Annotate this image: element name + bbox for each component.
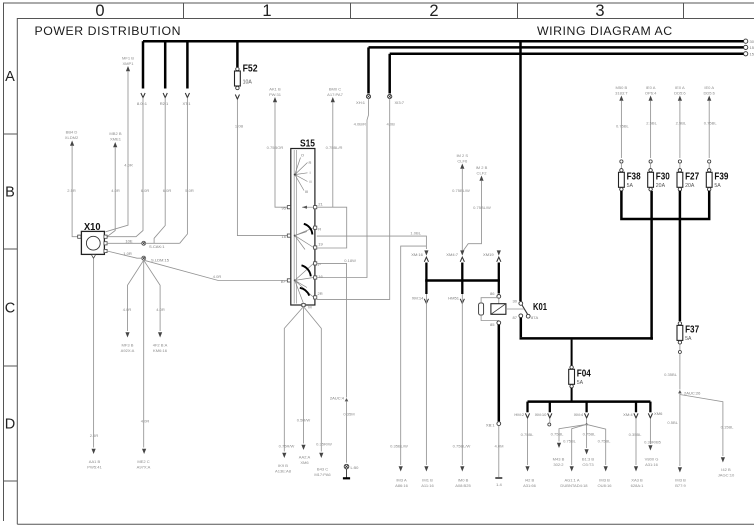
fuse F04 bbox=[570, 366, 573, 369]
node 15I terminal bbox=[744, 52, 748, 56]
svg-text:XM4:7: XM4:7 bbox=[446, 252, 458, 257]
svg-text:A92X:A: A92X:A bbox=[121, 348, 135, 353]
wire XM4 stub bbox=[461, 263, 463, 295]
svg-text:F38: F38 bbox=[627, 171, 641, 182]
svg-text:2AUC:26: 2AUC:26 bbox=[684, 391, 701, 396]
svg-text:XM:10: XM:10 bbox=[535, 412, 547, 417]
svg-text:1: 1 bbox=[262, 2, 271, 20]
svg-text:B+: B+ bbox=[281, 279, 287, 284]
svg-text:3: 3 bbox=[595, 2, 604, 20]
svg-text:XM19: XM19 bbox=[483, 252, 494, 257]
svg-text:0.75R/W: 0.75R/W bbox=[279, 443, 295, 448]
wire 0.5BL to IM3 B bbox=[679, 394, 681, 467]
splice S.LDM:15 bbox=[142, 256, 146, 260]
wire 0.35M to ground bbox=[346, 402, 348, 463]
svg-text:A13E:A8: A13E:A8 bbox=[275, 469, 292, 474]
svg-text:628A:1: 628A:1 bbox=[631, 483, 645, 488]
svg-text:6.0R: 6.0R bbox=[141, 188, 150, 193]
svg-text:F52: F52 bbox=[243, 64, 258, 75]
K01 switch blade bbox=[522, 305, 528, 314]
svg-text:IM3 A: IM3 A bbox=[396, 478, 407, 483]
svg-text:4.0R: 4.0R bbox=[156, 307, 165, 312]
wire 0.35BL to XA3 B bbox=[635, 419, 637, 465]
K01 terminal 86 bbox=[497, 295, 501, 299]
svg-text:0.75BL: 0.75BL bbox=[563, 439, 577, 444]
bus 30 bbox=[143, 40, 744, 43]
bus 15I bbox=[390, 53, 744, 56]
fuse F39 bbox=[708, 169, 711, 172]
svg-text:0.35M: 0.35M bbox=[343, 412, 355, 417]
wire F04 to bus2 bbox=[571, 388, 573, 401]
svg-text:10E: 10E bbox=[125, 238, 133, 243]
wire 1.0BL S15 pin R to XM:16 bbox=[317, 236, 427, 249]
svg-text:BM0 C: BM0 C bbox=[329, 87, 341, 92]
X10 pin bottom bbox=[92, 255, 96, 258]
wire drop to XI3:7 bbox=[388, 54, 391, 94]
svg-text:A17:PA7: A17:PA7 bbox=[327, 92, 343, 97]
K01 coil resistor bbox=[479, 303, 484, 315]
wire S15 pin21 to pin19 link bbox=[317, 207, 347, 248]
svg-text:DUBNTAD4:18: DUBNTAD4:18 bbox=[560, 483, 588, 488]
bus XM horizontal bbox=[425, 279, 500, 282]
svg-text:0.35R/W: 0.35R/W bbox=[316, 442, 332, 447]
wire drop XT:1 bbox=[186, 41, 189, 88]
wire K01 85 to XB:1 bbox=[498, 325, 501, 422]
wire 4.0R to X10 pin1 bbox=[107, 147, 115, 237]
wire XM:4 junction bbox=[586, 419, 588, 424]
wire 2.5R to X10 left pin bbox=[72, 146, 78, 237]
column ticks bbox=[184, 3, 684, 19]
wire 0.75BL to M43 B bbox=[559, 424, 587, 441]
fuse F27 bbox=[678, 169, 681, 172]
wire XM:10 tail bbox=[549, 419, 551, 423]
svg-text:2.5R: 2.5R bbox=[90, 433, 99, 438]
svg-text:M50 B: M50 B bbox=[616, 85, 628, 90]
S15 contact row1 bbox=[302, 206, 314, 208]
svg-text:F30: F30 bbox=[656, 171, 670, 182]
svg-text:B1:3 B: B1:3 B bbox=[582, 457, 594, 462]
K01 terminal 30 bbox=[519, 302, 523, 306]
svg-text:IM1 B: IM1 B bbox=[422, 478, 433, 483]
svg-text:10A: 10A bbox=[243, 80, 253, 86]
svg-text:WIRING DIAGRAM AC: WIRING DIAGRAM AC bbox=[537, 24, 673, 38]
svg-text:I: I bbox=[309, 170, 310, 175]
svg-text:AA2:A: AA2:A bbox=[299, 455, 311, 460]
svg-text:85: 85 bbox=[490, 322, 495, 327]
svg-text:A31:16: A31:16 bbox=[645, 462, 659, 467]
wire K01 30 feed bbox=[519, 41, 522, 301]
svg-text:PW:31: PW:31 bbox=[269, 92, 282, 97]
X10 pin left bbox=[78, 235, 81, 238]
svg-text:2AUC:4: 2AUC:4 bbox=[330, 395, 345, 400]
svg-text:B77:9: B77:9 bbox=[675, 483, 686, 488]
svg-text:4.0R: 4.0R bbox=[141, 419, 150, 424]
splice 2AUC:26 bbox=[678, 390, 682, 393]
svg-text:2.5R: 2.5R bbox=[67, 188, 76, 193]
svg-text:95: 95 bbox=[281, 205, 286, 210]
wire 4.0R splice to ME2 C bbox=[143, 260, 145, 447]
svg-text:0.75BL: 0.75BL bbox=[616, 124, 630, 129]
wire 2.5R X10 bottom to AA1 B bbox=[93, 258, 95, 447]
svg-text:IM3 B: IM3 B bbox=[675, 478, 686, 483]
X10 pin right 2 bbox=[104, 242, 107, 245]
svg-text:IK9 B: IK9 B bbox=[278, 463, 288, 468]
K01 coil bbox=[498, 298, 500, 303]
svg-text:I42 B: I42 B bbox=[525, 478, 535, 483]
svg-text:20A: 20A bbox=[685, 183, 695, 189]
wire stub XM:10 bbox=[549, 402, 551, 413]
svg-text:XM:16: XM:16 bbox=[411, 252, 423, 257]
connector XM6 bbox=[648, 413, 652, 418]
wire 2.5BL to F27 bbox=[679, 101, 681, 158]
svg-text:16: 16 bbox=[281, 234, 286, 239]
node 30 terminal bbox=[744, 39, 748, 43]
S15 pin P bbox=[314, 262, 317, 265]
svg-text:R: R bbox=[318, 227, 321, 232]
svg-text:DD5:6: DD5:6 bbox=[703, 90, 715, 95]
svg-text:O: O bbox=[301, 153, 304, 158]
svg-text:F04: F04 bbox=[577, 368, 591, 379]
svg-text:R2:1: R2:1 bbox=[160, 101, 169, 106]
svg-text:P: P bbox=[318, 262, 321, 267]
wire 4.0R splice to MF3 B bbox=[128, 260, 144, 331]
ground L:50 bbox=[344, 464, 349, 477]
svg-text:XM:4: XM:4 bbox=[574, 412, 584, 417]
svg-text:IE0 A: IE0 A bbox=[675, 85, 685, 90]
svg-text:0.75BL: 0.75BL bbox=[704, 121, 718, 126]
svg-text:19: 19 bbox=[318, 242, 323, 247]
svg-text:0.75BL: 0.75BL bbox=[598, 439, 612, 444]
svg-text:V800 G: V800 G bbox=[645, 457, 659, 462]
svg-text:XT:1: XT:1 bbox=[182, 101, 191, 106]
svg-text:21: 21 bbox=[318, 202, 323, 207]
svg-text:IE0 A: IE0 A bbox=[646, 85, 656, 90]
svg-text:XM6: XM6 bbox=[300, 460, 309, 465]
svg-text:F37: F37 bbox=[685, 324, 699, 335]
svg-text:0.75BL/R: 0.75BL/R bbox=[326, 145, 343, 150]
svg-text:0.5BL: 0.5BL bbox=[667, 420, 678, 425]
wire 4.0R from XMP1 bbox=[106, 71, 129, 232]
wire 4.0R splice to 4F2 bbox=[144, 260, 160, 331]
svg-text:XH:1: XH:1 bbox=[356, 100, 366, 105]
svg-text:15: 15 bbox=[750, 45, 754, 50]
wire S15 bottom to B43 bbox=[304, 307, 322, 452]
svg-text:A: A bbox=[5, 69, 15, 85]
svg-text:30: 30 bbox=[512, 299, 517, 304]
S15 middle wiper bbox=[294, 235, 296, 237]
svg-text:0.75BOR: 0.75BOR bbox=[267, 145, 284, 150]
svg-text:XM6: XM6 bbox=[654, 411, 663, 416]
svg-text:OP6:4: OP6:4 bbox=[645, 90, 657, 95]
svg-text:IM0 B: IM0 B bbox=[458, 478, 469, 483]
fuse F30 bbox=[649, 169, 652, 172]
wire 0.75BL/R from S15 pin 21 bbox=[332, 102, 334, 207]
svg-text:ME2 C: ME2 C bbox=[137, 459, 149, 464]
wire 0.75BL to F39 bbox=[708, 101, 710, 158]
svg-text:XB:1: XB:1 bbox=[486, 423, 496, 428]
svg-text:2R: 2R bbox=[318, 291, 323, 296]
wire 0.15BL branch to I42 B bbox=[680, 395, 723, 457]
svg-text:5A: 5A bbox=[714, 183, 721, 189]
svg-text:15I: 15I bbox=[750, 52, 754, 57]
wire 0.75BL to AG1 bbox=[572, 424, 587, 465]
svg-text:30: 30 bbox=[750, 39, 754, 44]
row ticks bbox=[4, 134, 18, 481]
wire stub XM:4 bbox=[585, 402, 587, 413]
wire 0.35BL/W to IM1 B bbox=[425, 294, 427, 465]
svg-text:AA1 B: AA1 B bbox=[89, 459, 101, 464]
S15 pin 16 left bbox=[287, 234, 290, 237]
wire F38 F39 link bus bbox=[621, 191, 709, 219]
fuse F37 bbox=[678, 322, 681, 325]
svg-text:4F2 B:A: 4F2 B:A bbox=[153, 343, 168, 348]
svg-text:B: B bbox=[5, 185, 15, 201]
svg-text:2.5BL: 2.5BL bbox=[646, 121, 657, 126]
svg-text:MB2 B: MB2 B bbox=[109, 131, 121, 136]
svg-text:XI3:7: XI3:7 bbox=[395, 100, 405, 105]
svg-text:IM3 B: IM3 B bbox=[599, 478, 610, 483]
svg-text:K01: K01 bbox=[533, 302, 547, 313]
svg-text:0.75BL/W: 0.75BL/W bbox=[473, 205, 491, 210]
S15 pin B+ bbox=[287, 279, 290, 282]
wire 0.18W S15 pin P to ground bbox=[317, 263, 347, 397]
wire stub HM:2 bbox=[526, 402, 528, 413]
wire S15 bottom to IK9 bbox=[284, 307, 303, 452]
svg-text:1.0BL: 1.0BL bbox=[410, 231, 421, 236]
wire 2.5BL to F30 bbox=[650, 101, 652, 158]
svg-text:3183:T: 3183:T bbox=[615, 90, 628, 95]
wire 10E X10 pin2 to drop bbox=[107, 242, 180, 244]
svg-text:0.18W: 0.18W bbox=[344, 258, 356, 263]
connector HM:2 bbox=[525, 413, 529, 418]
bus F04 distribution bbox=[528, 400, 651, 403]
svg-text:5A: 5A bbox=[685, 336, 692, 342]
svg-text:AK1 B: AK1 B bbox=[269, 87, 281, 92]
K01 terminal 87 bbox=[519, 314, 523, 318]
S15 pin 21 bbox=[314, 206, 317, 209]
svg-text:F39: F39 bbox=[714, 171, 728, 182]
svg-text:A86:16: A86:16 bbox=[395, 483, 409, 488]
svg-text:DD5:6: DD5:6 bbox=[674, 90, 686, 95]
svg-text:III: III bbox=[305, 189, 308, 194]
S15 pin 2R bbox=[314, 296, 317, 299]
svg-text:HM:2: HM:2 bbox=[514, 412, 524, 417]
svg-text:I42 B: I42 B bbox=[721, 467, 731, 472]
svg-text:XA3 B: XA3 B bbox=[631, 478, 643, 483]
svg-text:AG1:1 A: AG1:1 A bbox=[564, 478, 579, 483]
svg-text:0.35BL: 0.35BL bbox=[664, 372, 678, 377]
wire XM19 stub to K01 coil bbox=[498, 263, 500, 294]
svg-text:C: C bbox=[5, 301, 15, 317]
X10 pin right 1 bbox=[104, 235, 107, 238]
svg-text:2.5BL: 2.5BL bbox=[676, 121, 687, 126]
svg-text:F27: F27 bbox=[685, 171, 699, 182]
svg-text:CLF6: CLF6 bbox=[457, 159, 468, 164]
svg-text:IM 2 B: IM 2 B bbox=[476, 165, 488, 170]
wire drop to F52 bbox=[236, 41, 239, 67]
wire 4.0M to ground 1.4 bbox=[498, 426, 500, 478]
svg-text:1.0R: 1.0R bbox=[123, 251, 132, 256]
svg-text:A08:B25: A08:B25 bbox=[455, 483, 471, 488]
svg-text:87A: 87A bbox=[531, 315, 539, 320]
svg-text:S15: S15 bbox=[300, 139, 315, 150]
X10 pin right 3 bbox=[104, 249, 107, 252]
wire drop to XH:1 bbox=[367, 47, 370, 93]
fuse F38 bbox=[620, 169, 623, 172]
svg-text:OU8:16: OU8:16 bbox=[598, 483, 613, 488]
S15 pin 19 bbox=[314, 246, 317, 249]
node 15 terminal bbox=[744, 45, 748, 49]
svg-text:5A: 5A bbox=[627, 183, 634, 189]
wire 0.35R/B5 to V800 bbox=[649, 419, 651, 444]
svg-text:4.0R: 4.0R bbox=[123, 307, 132, 312]
svg-text:0.35BL: 0.35BL bbox=[629, 432, 643, 437]
svg-text:0.35R/B5: 0.35R/B5 bbox=[644, 439, 662, 444]
wire drop 8.0t:1 bbox=[142, 41, 145, 88]
svg-text:B43 C: B43 C bbox=[317, 467, 328, 472]
svg-text:87: 87 bbox=[512, 315, 517, 320]
svg-text:4.0B: 4.0B bbox=[387, 122, 396, 127]
wire 0.75BOR to S15 pin 95 bbox=[275, 102, 287, 207]
svg-text:0.15BL: 0.15BL bbox=[721, 425, 735, 430]
svg-text:JAGC:10: JAGC:10 bbox=[718, 473, 735, 478]
svg-text:IE0 A: IE0 A bbox=[704, 85, 714, 90]
svg-text:O3:T3: O3:T3 bbox=[582, 462, 594, 467]
svg-text:MF1 B: MF1 B bbox=[122, 56, 134, 61]
svg-text:86: 86 bbox=[490, 291, 495, 296]
wire F30 to bus bbox=[650, 191, 653, 340]
svg-text:XLDM2: XLDM2 bbox=[65, 135, 79, 140]
node XH:1 bbox=[366, 94, 370, 98]
svg-text:302:2: 302:2 bbox=[553, 462, 564, 467]
wire 0.75BL/W to XM4:7 jog bbox=[462, 181, 481, 252]
svg-text:0.35BL/W: 0.35BL/W bbox=[390, 443, 408, 448]
K01 resistor loop wires bbox=[481, 298, 499, 321]
svg-text:R: R bbox=[309, 160, 312, 165]
wire 1.0R X10 pin3 to splice bbox=[107, 251, 141, 258]
svg-text:0: 0 bbox=[95, 2, 104, 20]
connector XM:4 bbox=[634, 413, 638, 418]
wire 4.0B XI3 to S15 pin 2R bbox=[317, 99, 390, 300]
svg-text:4.0R: 4.0R bbox=[111, 188, 120, 193]
svg-text:2: 2 bbox=[429, 2, 438, 20]
wire stub XM:4 bbox=[635, 402, 637, 413]
svg-text:5A: 5A bbox=[577, 380, 584, 386]
wire stub XM6 bbox=[649, 402, 651, 413]
svg-text:MF3 B: MF3 B bbox=[122, 343, 134, 348]
S15 pin M bottom bbox=[302, 303, 305, 306]
svg-text:D: D bbox=[5, 417, 15, 433]
wire 4.0R splice to S15 B+ bbox=[144, 260, 288, 280]
wire 0.75BL to I42 B bbox=[527, 419, 529, 465]
wire branch to IM3 A bbox=[401, 246, 427, 465]
svg-text:S.CAK:1: S.CAK:1 bbox=[149, 244, 165, 249]
svg-text:XMP1: XMP1 bbox=[122, 61, 134, 66]
svg-text:0.75BL: 0.75BL bbox=[583, 432, 597, 437]
wire 0.75BL/W to XM4:7 bbox=[461, 169, 463, 252]
svg-text:M17:PA6: M17:PA6 bbox=[314, 472, 331, 477]
svg-text:1.4: 1.4 bbox=[496, 482, 502, 487]
wire 0.35BL below F37 bbox=[679, 344, 681, 350]
K01 terminal 85 bbox=[497, 321, 501, 325]
wire drop R2:1 bbox=[164, 41, 167, 88]
splice S.CAK:1 bbox=[142, 241, 146, 245]
svg-text:6.0R: 6.0R bbox=[163, 188, 172, 193]
svg-text:HM51: HM51 bbox=[448, 296, 460, 301]
splice 2AUC:4 bbox=[345, 398, 349, 401]
K01 terminal 87A bbox=[526, 314, 530, 318]
svg-text:0.75BL/W: 0.75BL/W bbox=[452, 188, 470, 193]
wire 6.0R to X10 pin1 bbox=[107, 98, 143, 237]
svg-text:4.0B/R: 4.0B/R bbox=[354, 122, 366, 127]
wire 0.75BL/W to IM0 B bbox=[461, 294, 463, 465]
wire 6.0R to splice S.CAK:1 bbox=[154, 98, 165, 244]
wire bus to F04 bbox=[571, 340, 573, 366]
wire K01 87 to F30 bus bbox=[520, 318, 523, 338]
node XI3:7 bbox=[388, 94, 392, 98]
svg-text:PW5:41: PW5:41 bbox=[87, 465, 102, 470]
wire 1.0B F52 to S15 pin 16 bbox=[237, 100, 287, 236]
svg-text:4.0M: 4.0M bbox=[495, 444, 505, 449]
svg-text:POWER DISTRIBUTION: POWER DISTRIBUTION bbox=[35, 24, 182, 38]
S15 lower wiper bbox=[294, 279, 296, 281]
svg-text:XME1: XME1 bbox=[110, 137, 122, 142]
svg-text:4.0R: 4.0R bbox=[124, 163, 133, 168]
S15 pin 16 right bbox=[314, 276, 317, 279]
wire S15 bottom to AA2 bbox=[303, 307, 305, 444]
svg-text:L:50: L:50 bbox=[351, 465, 360, 470]
svg-text:0.75BL: 0.75BL bbox=[551, 432, 565, 437]
connector XM:10 bbox=[548, 413, 552, 418]
svg-text:A97X:A: A97X:A bbox=[137, 465, 151, 470]
svg-text:KM6:16: KM6:16 bbox=[153, 348, 168, 353]
svg-text:M43 B: M43 B bbox=[553, 457, 565, 462]
wire XM:16 stub bbox=[425, 263, 427, 295]
wire 0.75BL to IM3 B OU8 bbox=[587, 424, 606, 465]
S15 pin R bbox=[314, 226, 317, 229]
wire F27 to F37 bbox=[679, 191, 682, 321]
svg-text:IM 2 S: IM 2 S bbox=[456, 153, 468, 158]
K01 coil to blade wire bbox=[506, 308, 524, 310]
svg-text:0.75BL/W: 0.75BL/W bbox=[453, 443, 471, 448]
wire 0.75BL to B1:3 bbox=[586, 424, 588, 448]
svg-text:A11:16: A11:16 bbox=[421, 483, 434, 488]
svg-text:5.0R: 5.0R bbox=[185, 188, 194, 193]
wire 0.75BL to F38 bbox=[620, 101, 622, 158]
svg-text:20A: 20A bbox=[656, 183, 666, 189]
svg-text:A31:66: A31:66 bbox=[523, 483, 537, 488]
wire 5.0R bbox=[180, 98, 188, 244]
svg-text:8.0t:1: 8.0t:1 bbox=[137, 101, 148, 106]
svg-text:16: 16 bbox=[318, 274, 323, 279]
svg-text:XM:14: XM:14 bbox=[412, 296, 424, 301]
wire 4.0B/R XH:1 to S15 pin 16 bbox=[317, 99, 369, 278]
S15 rotary positions fan bbox=[295, 158, 308, 191]
svg-text:XM:4: XM:4 bbox=[623, 412, 633, 417]
svg-text:CLF2: CLF2 bbox=[477, 171, 488, 176]
connector XM:4 bbox=[585, 413, 589, 418]
svg-text:II: II bbox=[309, 179, 311, 184]
bus 15 bbox=[369, 46, 744, 49]
node XB:1 bbox=[497, 422, 501, 426]
svg-text:1.0B: 1.0B bbox=[235, 124, 244, 129]
svg-text:0.75BL: 0.75BL bbox=[521, 432, 535, 437]
svg-text:4.0R: 4.0R bbox=[213, 274, 222, 279]
svg-text:S.LDM:15: S.LDM:15 bbox=[151, 257, 170, 262]
S15 pin 95 bbox=[287, 206, 290, 209]
svg-text:BB4 D: BB4 D bbox=[66, 130, 78, 135]
svg-text:0.5R/W: 0.5R/W bbox=[297, 417, 311, 422]
